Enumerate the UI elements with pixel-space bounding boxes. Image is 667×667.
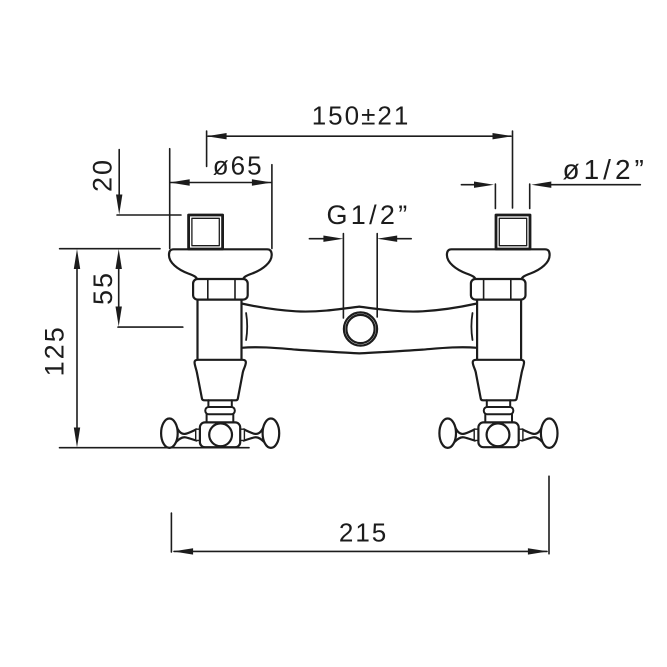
svg-text:215: 215 bbox=[339, 518, 388, 548]
svg-text:150±21: 150±21 bbox=[312, 101, 411, 131]
svg-text:125: 125 bbox=[39, 325, 69, 376]
svg-text:ø65: ø65 bbox=[213, 151, 264, 181]
svg-text:G1/2”: G1/2” bbox=[327, 200, 411, 230]
svg-text:ø1/2”: ø1/2” bbox=[563, 154, 648, 185]
svg-text:55: 55 bbox=[88, 271, 118, 305]
svg-text:20: 20 bbox=[87, 158, 117, 192]
